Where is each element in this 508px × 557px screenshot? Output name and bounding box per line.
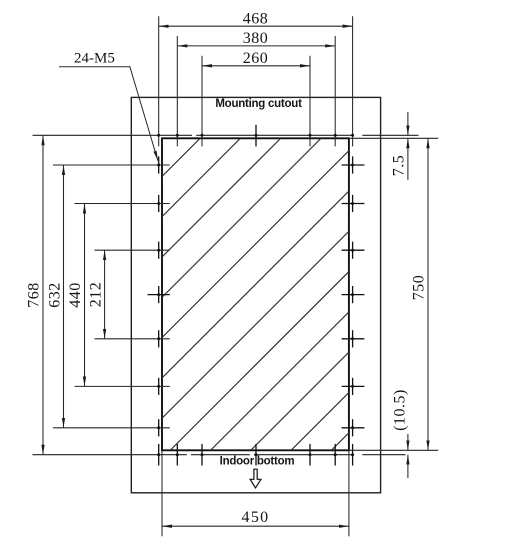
mounting cutout rectangle (162, 138, 349, 450)
dim 260 extension lines (201, 56, 203, 147)
svg-text:450: 450 (242, 509, 270, 526)
svg-text:Indoor bottom: Indoor bottom (220, 455, 295, 467)
hatch lines (140, 0, 508, 460)
hole cross marks: top row vertical bars (148, 125, 365, 466)
svg-text:468: 468 (243, 10, 269, 27)
dim 260 line (202, 65, 310, 67)
outer panel rectangle (131, 97, 380, 492)
leader line for 24-M5 (59, 67, 158, 161)
hole cross marks: left column center-hole horizontal bar (148, 294, 170, 296)
svg-text:212: 212 (87, 282, 104, 308)
dim 450 line (162, 525, 349, 527)
dim 468 extension lines (158, 16, 160, 146)
dim 7.5 lower arrow segment (407, 138, 409, 180)
indoor bottom hollow arrow (250, 469, 261, 488)
dim 212 extension lines (95, 249, 170, 251)
hole cross marks: right column vertical bars (352, 156, 354, 173)
hole cross marks: left column vertical bars (158, 156, 160, 173)
svg-text:7.5: 7.5 (390, 155, 407, 177)
dim 440 extension lines (75, 203, 170, 205)
dim 10.5 upper arrow segment (407, 434, 409, 450)
dim 632 extension lines (53, 164, 170, 166)
dim 10.5 lower arrow segment (407, 455, 409, 478)
cutout bottom edge extension to right (349, 449, 438, 451)
svg-text:632: 632 (46, 282, 63, 308)
dim 380 extension lines (176, 36, 178, 146)
dim 468 line (43, 16, 438, 536)
dim 440 line (84, 204, 86, 387)
svg-text:750: 750 (411, 275, 428, 301)
hole cross marks: right column horizontal bars (342, 164, 365, 166)
svg-text:768: 768 (26, 282, 43, 308)
dim 7.5 upper arrow segment (407, 112, 409, 135)
dim 750 line (427, 138, 429, 450)
svg-text:Mounting cutout: Mounting cutout (215, 98, 302, 110)
svg-text:(10.5): (10.5) (392, 389, 409, 431)
dim 768 line (42, 135, 44, 454)
dim 212 line (104, 250, 106, 339)
svg-text:380: 380 (243, 30, 269, 47)
cutout top edge extension to right (349, 137, 438, 139)
dim 632 line (63, 165, 65, 428)
bottom hole row centerline (33, 454, 406, 456)
svg-text:260: 260 (243, 50, 269, 67)
dim 450 extension lines (161, 450, 163, 536)
hole cross marks: bottom row vertical bars (158, 444, 160, 466)
svg-text:440: 440 (67, 282, 84, 308)
dim 380 line (177, 45, 335, 47)
hole center dots (157, 134, 354, 456)
top hole row centerline (33, 134, 419, 136)
svg-text:24-M5: 24-M5 (74, 51, 115, 67)
